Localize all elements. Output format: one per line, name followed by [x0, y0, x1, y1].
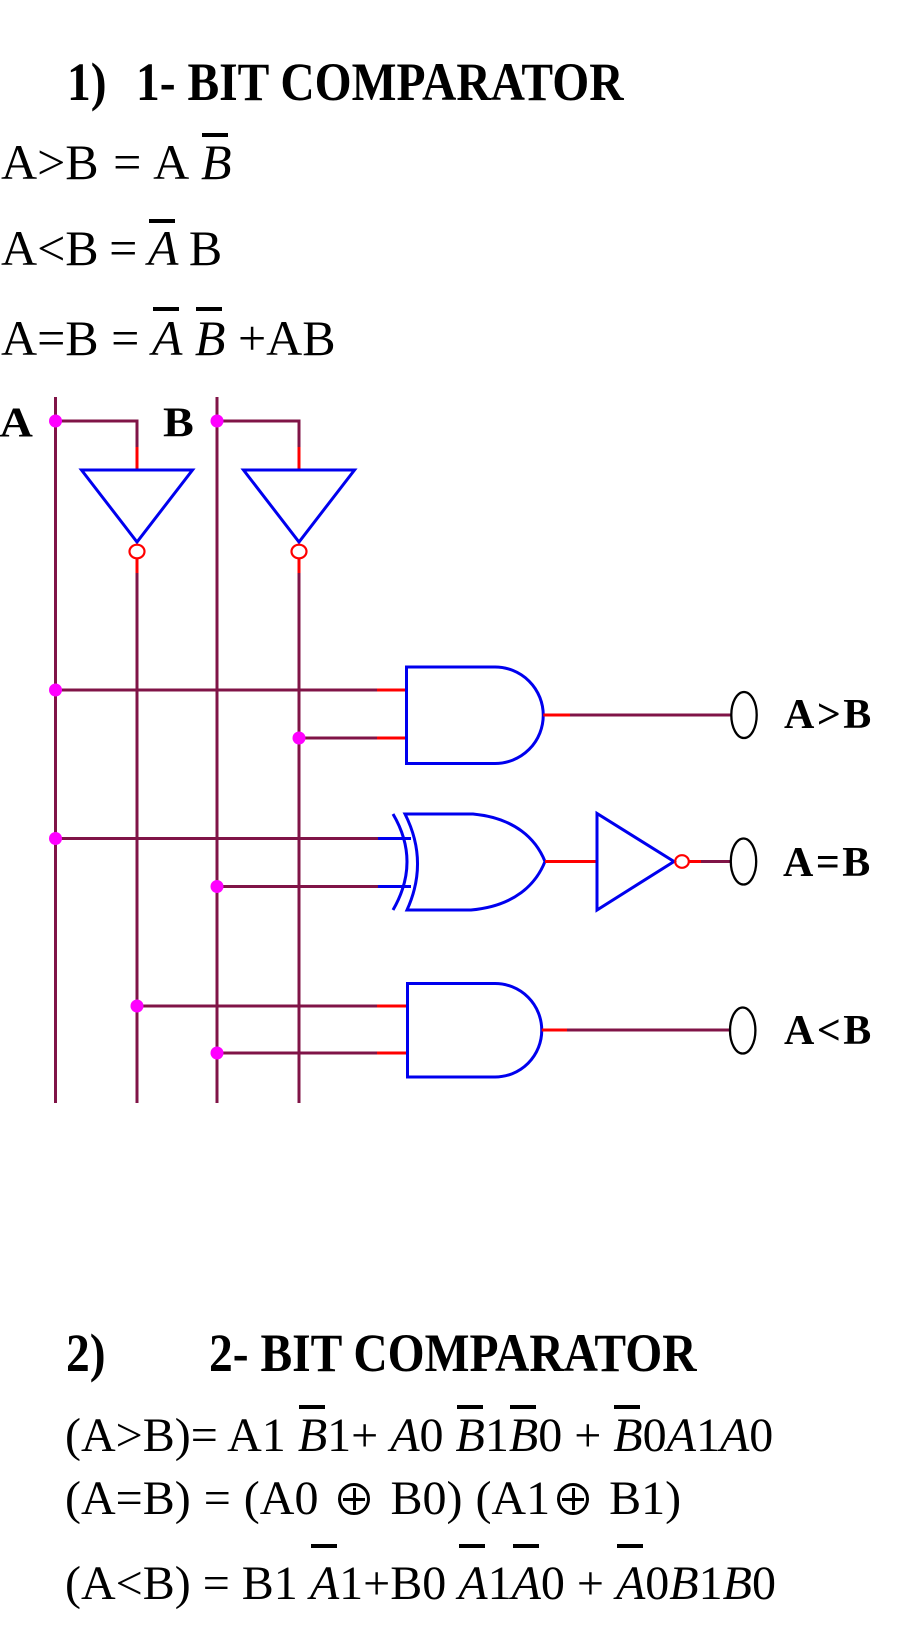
heading: 1- BIT COMPARATOR: [136, 51, 624, 113]
wire: NOT2 output pin stub (red): [298, 559, 301, 574]
wire: AND1 output to terminal: [570, 714, 731, 717]
output terminal A<B: [730, 1008, 755, 1054]
wire: NOT2 input pin stub (red): [298, 447, 301, 470]
wire: input A vertical rail: [54, 397, 57, 1103]
junction dot A/AND1: [49, 684, 62, 697]
XOR gate U4 input arc: [393, 814, 407, 910]
junction dot A/XOR: [49, 832, 62, 845]
wire: B to XOR input 2: [217, 885, 378, 888]
wire: Abar to AND2 input 1: [137, 1005, 377, 1008]
junction dot B/AND2: [211, 1047, 224, 1060]
svg-text:B: B: [163, 399, 194, 446]
wire: AND1 output pin stub (red): [543, 714, 570, 717]
wire: NOT1 output pin stub (red): [136, 559, 139, 574]
wire: Bbar to AND1 input 2: [299, 737, 377, 740]
wire: XOR input 2 stub (blue): [378, 885, 411, 888]
equation (A<B) 2-bit: [65, 1556, 776, 1611]
junction dot A/NOT1: [49, 415, 62, 428]
equation (A=B) 2-bit: [65, 1471, 681, 1526]
inverter U5 output bubble: [675, 855, 689, 868]
equation A>B = A Bbar: [1, 133, 232, 191]
wire: AND2 input 1 pin stub (red): [377, 1005, 408, 1008]
inverter U1 (NOT for A, pointing down): [82, 470, 193, 542]
wire: AND2 output to terminal: [567, 1029, 730, 1032]
wire: XOR output to NOT3 (red): [545, 860, 597, 863]
wire: input B vertical rail: [216, 397, 219, 1103]
AND gate U3 (A>B): [407, 667, 544, 764]
equation (A>B) 2-bit: [65, 1408, 773, 1463]
output terminal A>B: [731, 692, 756, 738]
junction dot B/XOR: [211, 880, 224, 893]
heading: 2- BIT COMPARATOR: [209, 1322, 697, 1384]
wire: A to AND1 input 1: [56, 689, 378, 692]
svg-text:A: A: [0, 399, 33, 446]
equation A=B = Abar Bbar + AB: [1, 309, 336, 367]
heading numeral: 1): [67, 51, 107, 113]
wire: AND2 input 2 pin stub (red): [377, 1052, 408, 1055]
wire: A to XOR input 1: [56, 837, 379, 840]
equation A<B = Abar B: [1, 219, 222, 277]
heading numeral: 2): [66, 1322, 106, 1384]
wire: XOR input 1 stub (blue): [378, 837, 411, 840]
wire: A branch to NOT1 input: [56, 421, 138, 447]
wire: B to AND2 input 2: [217, 1052, 377, 1055]
output terminal A=B: [731, 839, 756, 885]
wire: Abar vertical rail: [136, 573, 139, 1103]
wire: NOT1 input pin stub (red): [136, 447, 139, 470]
wire: NOT3 output stub (red): [689, 860, 702, 863]
svg-text:A>B: A>B: [784, 692, 874, 738]
wire: AND2 output pin stub (red): [542, 1029, 567, 1032]
wire: NOT3 output to terminal: [701, 860, 730, 863]
inverter U1 output bubble: [130, 545, 145, 559]
junction dot Bbar/AND1: [293, 732, 306, 745]
wire: Bbar vertical rail: [298, 573, 301, 1103]
svg-text:A=B: A=B: [783, 840, 873, 886]
junction dot B/NOT2: [211, 415, 224, 428]
wire: AND1 input 1 pin stub (red): [377, 689, 407, 692]
AND gate U6 (A<B): [408, 984, 542, 1078]
inverter U2 (NOT for B, pointing down): [244, 470, 355, 542]
inverter U5 (pointing right): [597, 814, 674, 911]
XOR gate U4: [405, 814, 545, 910]
junction dot Abar/AND2: [131, 1000, 144, 1013]
wire: AND1 input 2 pin stub (red): [377, 737, 407, 740]
wire: B branch to NOT2 input: [217, 421, 299, 447]
svg-text:A<B: A<B: [784, 1008, 874, 1054]
inverter U2 output bubble: [292, 545, 307, 559]
